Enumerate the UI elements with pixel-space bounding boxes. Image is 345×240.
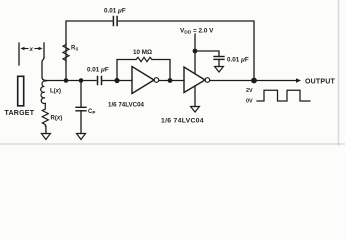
- node junction inverter1 input: [114, 78, 119, 83]
- target plate rectangle: [18, 76, 24, 106]
- ground symbol decoupling: [215, 67, 224, 73]
- wire feedback loop inverter 1: [117, 60, 136, 81]
- svg-text:0.01 μF: 0.01 μF: [87, 67, 109, 74]
- wire output: [254, 80, 297, 82]
- svg-text:TARGET: TARGET: [5, 110, 35, 117]
- svg-text:CP: CP: [88, 109, 95, 115]
- op-amp U2 inverter 1/6 74LVC04 triangle: [184, 67, 205, 93]
- svg-text:2V: 2V: [246, 88, 253, 94]
- resistor R1 10 Mohm zigzag: [136, 57, 152, 61]
- dimension bar left: [18, 43, 20, 65]
- svg-text:OUTPUT: OUTPUT: [305, 79, 336, 86]
- svg-text:0.01 μF: 0.01 μF: [104, 7, 126, 14]
- wire R(x) to ground: [45, 126, 47, 134]
- wire Cp branch: [80, 81, 82, 108]
- wire top rail left segment: [66, 21, 112, 81]
- right page border (faint): [338, 0, 340, 146]
- dimension arrow right: [35, 48, 41, 50]
- wire VDD lead: [194, 34, 196, 74]
- svg-text:L(x): L(x): [50, 89, 61, 95]
- wire inverter2 output to node: [210, 80, 254, 82]
- svg-text:R(x): R(x): [51, 116, 63, 122]
- op-amp U1 inverter 1/6 74LVC04 triangle: [132, 67, 154, 94]
- svg-text:0.01 μF: 0.01 μF: [227, 56, 249, 63]
- svg-text:0V: 0V: [246, 99, 253, 105]
- wire main input node rail: [45, 80, 96, 82]
- capacitor C3 0.01uF decoupling plates: [214, 57, 224, 60]
- capacitor C1 0.01uF (top feedback) plates: [113, 17, 117, 26]
- capacitor C2 0.01uF (series input) plates: [98, 77, 102, 85]
- node junction inverter1 output: [168, 78, 173, 83]
- bottom page border (faint): [0, 143, 345, 145]
- wire dimension bar to coil: [42, 58, 46, 81]
- wire Cp to ground: [80, 111, 82, 134]
- dimension arrow left: [22, 48, 28, 50]
- inverter 1 output bubble: [154, 78, 159, 83]
- node junction output: [251, 78, 257, 84]
- resistor R(x) zigzag: [42, 103, 48, 126]
- inductor L(x) coil: [41, 81, 46, 104]
- svg-text:x: x: [29, 46, 34, 53]
- wire inverter1 output to inverter2 input: [159, 80, 184, 82]
- capacitor Cp plates: [76, 107, 86, 111]
- wire cap to inverter input: [103, 80, 133, 82]
- svg-text:1/6 74LVC04: 1/6 74LVC04: [161, 118, 204, 125]
- wire top rail right segment: [119, 21, 255, 81]
- wire VDD to decoupling cap: [195, 51, 219, 56]
- svg-text:RS: RS: [71, 46, 78, 52]
- wire decoupling cap to ground: [218, 60, 220, 67]
- node junction VDD: [193, 49, 198, 54]
- ground symbol left branch: [41, 134, 50, 140]
- node junction Cp/main: [79, 78, 84, 83]
- svg-text:1/6 74LVC04: 1/6 74LVC04: [108, 101, 145, 108]
- ground symbol inverter 2: [191, 107, 200, 113]
- wire inverter2 ground pin: [194, 86, 196, 107]
- dimension bar right: [43, 43, 45, 58]
- node junction Rs/main: [64, 78, 69, 83]
- resistor Rs zigzag: [63, 43, 69, 62]
- svg-text:10 MΩ: 10 MΩ: [133, 49, 152, 56]
- ground symbol Cp: [77, 134, 86, 140]
- wire feedback right: [152, 60, 170, 81]
- output arrowhead: [296, 78, 301, 83]
- inverter 2 output bubble: [205, 78, 210, 83]
- output square wave: [257, 90, 310, 101]
